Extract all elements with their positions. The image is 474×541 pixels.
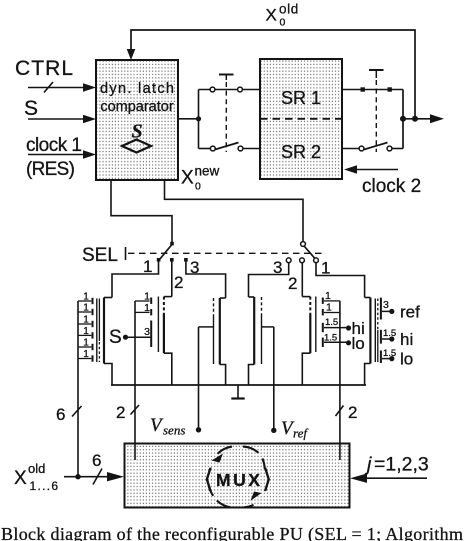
- output arrow right: [430, 114, 444, 123]
- wire j input arrow: [366, 477, 427, 479]
- op-amp U1 dyn latch comparator block: [96, 60, 178, 180]
- block MUX: [125, 444, 350, 508]
- svg-text:clock 2: clock 2: [362, 176, 421, 197]
- wire S input arrow: [28, 118, 85, 120]
- svg-text:1: 1: [321, 259, 330, 278]
- svg-text:⟨: ⟨: [204, 465, 214, 494]
- svg-text:old: old: [279, 2, 299, 17]
- node junction Xold/gate-bus: [75, 474, 80, 479]
- svg-text:1.5: 1.5: [383, 328, 396, 339]
- svg-text:1: 1: [83, 315, 89, 326]
- svg-text:1: 1: [144, 302, 150, 314]
- svg-text:1: 1: [83, 349, 89, 360]
- svg-text:ref: ref: [293, 426, 309, 441]
- svg-text:new: new: [195, 164, 220, 179]
- svg-text:old: old: [28, 461, 45, 476]
- svg-text:1: 1: [83, 326, 89, 337]
- svg-text:1...6: 1...6: [30, 479, 60, 493]
- wire comparator bottom-left to SEL pole: [111, 180, 172, 242]
- node junction right1: [400, 116, 406, 122]
- svg-text:1: 1: [83, 338, 89, 349]
- node X0_new label: [181, 164, 220, 193]
- wire bus 6 to Xold line: [72, 406, 82, 417]
- svg-text:hi: hi: [400, 330, 413, 349]
- svg-text:SR 2: SR 2: [281, 142, 321, 162]
- node j=1,2,3 label: [364, 454, 429, 476]
- wire right output bus: [403, 90, 431, 149]
- block SR1/SR2 shift registers: [260, 59, 342, 179]
- svg-text:3: 3: [383, 299, 389, 311]
- transistor M3 center-left: [199, 298, 226, 385]
- switch SEL left (pos 1 selected): [143, 242, 199, 292]
- svg-text:X: X: [14, 468, 27, 489]
- wire SEL-R contact3 to center-right transistor drain: [249, 263, 289, 297]
- node ref: [389, 309, 394, 314]
- wire clock2 input arrow: [355, 169, 398, 171]
- switch S3 top right (closed, square contacts): [342, 87, 403, 91]
- wire common source rail: [111, 384, 366, 386]
- control line left switch pair: [219, 75, 234, 153]
- node junction right2: [412, 116, 418, 122]
- svg-text:MUX: MUX: [216, 470, 262, 490]
- wire Xold input: [64, 469, 108, 485]
- switch S1 top (closed) between comparator and SR1: [199, 87, 261, 92]
- transistor M4 center-right: [249, 297, 274, 385]
- svg-text:ref: ref: [400, 303, 420, 322]
- transistor M5 inner-right (gates 1,1,1.5,1.5): [302, 297, 346, 461]
- svg-text:comparator: comparator: [100, 99, 174, 115]
- svg-text:1: 1: [144, 291, 150, 303]
- node Xold_1-6 label: [14, 461, 59, 493]
- svg-text:1.5: 1.5: [325, 317, 338, 328]
- svg-text:⟩: ⟩: [262, 465, 272, 494]
- transistor M1 outer-left (6 unit gates): [78, 298, 112, 477]
- wire clock1 input arrow: [28, 154, 85, 156]
- svg-text:0: 0: [280, 17, 286, 29]
- node lo: [346, 340, 351, 345]
- svg-text:SR 1: SR 1: [281, 88, 321, 108]
- block MUX label: [204, 465, 273, 494]
- wire SEL-R contact2 to inner-right transistor drain: [301, 263, 303, 297]
- svg-text:1: 1: [83, 303, 89, 314]
- wire X0old feedback top: [131, 30, 415, 118]
- svg-text:0: 0: [195, 181, 201, 193]
- node junction comparator output: [196, 116, 201, 121]
- rotate arrows around MUX: [209, 447, 265, 508]
- wire comparator output to switch: [178, 90, 199, 149]
- svg-text:6: 6: [56, 405, 65, 424]
- wire bus2 right into MUX: [336, 406, 344, 417]
- svg-text:1: 1: [326, 302, 332, 314]
- ground: [231, 385, 244, 399]
- control line right switch pair: [369, 70, 384, 152]
- svg-text:2: 2: [288, 274, 297, 293]
- wire SEL dashed control line: [126, 247, 323, 260]
- wire Vsens: [198, 327, 200, 430]
- svg-text:clock 1: clock 1: [26, 135, 82, 156]
- svg-text:CTRL: CTRL: [15, 57, 73, 80]
- wire comparator bottom-right to right SEL pole: [165, 180, 304, 242]
- svg-text:2: 2: [348, 403, 357, 422]
- wire SEL-L contact2 to inner-left transistor drain: [171, 262, 173, 297]
- node hi: [346, 325, 351, 330]
- svg-text:Block diagram of the reconfigu: Block diagram of the reconfigurable PU (…: [1, 524, 463, 541]
- svg-text:2: 2: [174, 273, 183, 292]
- switch S2 bottom (open) between comparator and SR2: [199, 143, 261, 151]
- svg-text:1.5: 1.5: [324, 333, 337, 344]
- node X0_old label: [266, 2, 299, 29]
- node hi right: [389, 336, 394, 341]
- svg-text:S: S: [24, 97, 38, 120]
- wire CTRL input arrow: [28, 82, 85, 93]
- svg-text:SEL: SEL: [82, 245, 118, 266]
- node lo right: [389, 356, 394, 361]
- wire SEL-R contact1 to outer-right transistor drain: [316, 263, 365, 298]
- svg-text:6: 6: [92, 451, 101, 470]
- value labels unit 1x6: [83, 292, 89, 361]
- svg-text:lo: lo: [352, 334, 365, 353]
- svg-text:1: 1: [143, 257, 152, 276]
- svg-text:X: X: [181, 168, 194, 189]
- svg-text:X: X: [266, 6, 277, 25]
- svg-text:S: S: [109, 327, 122, 348]
- switch SEL right (pos 1 selected): [286, 242, 318, 263]
- svg-text:lo: lo: [400, 350, 413, 369]
- wire SEL-L contact1 to outer-left transistor drain: [112, 262, 159, 298]
- svg-text:2: 2: [116, 403, 125, 422]
- svg-text:(RES): (RES): [26, 159, 75, 180]
- switch S4 bottom right (open): [342, 143, 403, 151]
- svg-text:3: 3: [144, 326, 150, 338]
- svg-text:=1,2,3: =1,2,3: [374, 454, 429, 476]
- wire SEL-L contact3 to center-left transistor drain: [186, 262, 226, 299]
- wire Vref: [273, 327, 275, 430]
- svg-text:1: 1: [83, 292, 89, 303]
- wire bus2 left into MUX: [131, 405, 140, 415]
- transistor M2 inner-left (gates 1,1,3): [135, 297, 172, 461]
- node Vref: [271, 428, 276, 433]
- arrow into MUX left: [107, 472, 124, 481]
- node Vsens: [196, 427, 201, 432]
- transistor M6 outer-right (gates 3,1.5,1.5): [365, 298, 390, 386]
- svg-text:1: 1: [325, 290, 331, 302]
- arrow into comparator top: [127, 49, 136, 60]
- svg-text:sens: sens: [163, 423, 185, 438]
